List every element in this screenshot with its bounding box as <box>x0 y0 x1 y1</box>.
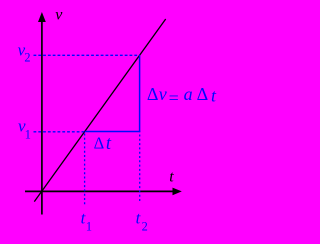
solid blue horizontal segment (Δt base) <box>85 131 140 133</box>
svg-text:v: v <box>55 7 63 24</box>
svg-text:t: t <box>106 134 112 154</box>
svg-text:Δ: Δ <box>94 134 105 153</box>
svg-text:2: 2 <box>24 51 30 65</box>
dashed blue horizontal line at v2 <box>34 54 140 56</box>
dotted blue vertical line at t2 <box>139 135 141 203</box>
dashed blue horizontal line at v1 <box>34 131 85 133</box>
svg-text:Δ: Δ <box>197 84 209 104</box>
t-axis <box>25 190 175 192</box>
solid blue vertical segment (Δv) <box>139 55 141 132</box>
svg-text:=: = <box>169 88 179 108</box>
svg-text:t: t <box>169 169 174 186</box>
svg-text:Δ: Δ <box>147 84 159 104</box>
v-axis <box>41 18 43 215</box>
v-axis arrowhead <box>38 12 46 22</box>
diagonal line v = a t <box>34 19 165 202</box>
dotted blue vertical line at t1 <box>84 134 86 205</box>
svg-text:a: a <box>184 84 193 104</box>
svg-text:2: 2 <box>142 220 148 234</box>
svg-text:1: 1 <box>25 128 31 142</box>
svg-text:1: 1 <box>86 220 92 234</box>
svg-text:v: v <box>159 84 167 104</box>
t-axis arrowhead <box>173 188 182 196</box>
